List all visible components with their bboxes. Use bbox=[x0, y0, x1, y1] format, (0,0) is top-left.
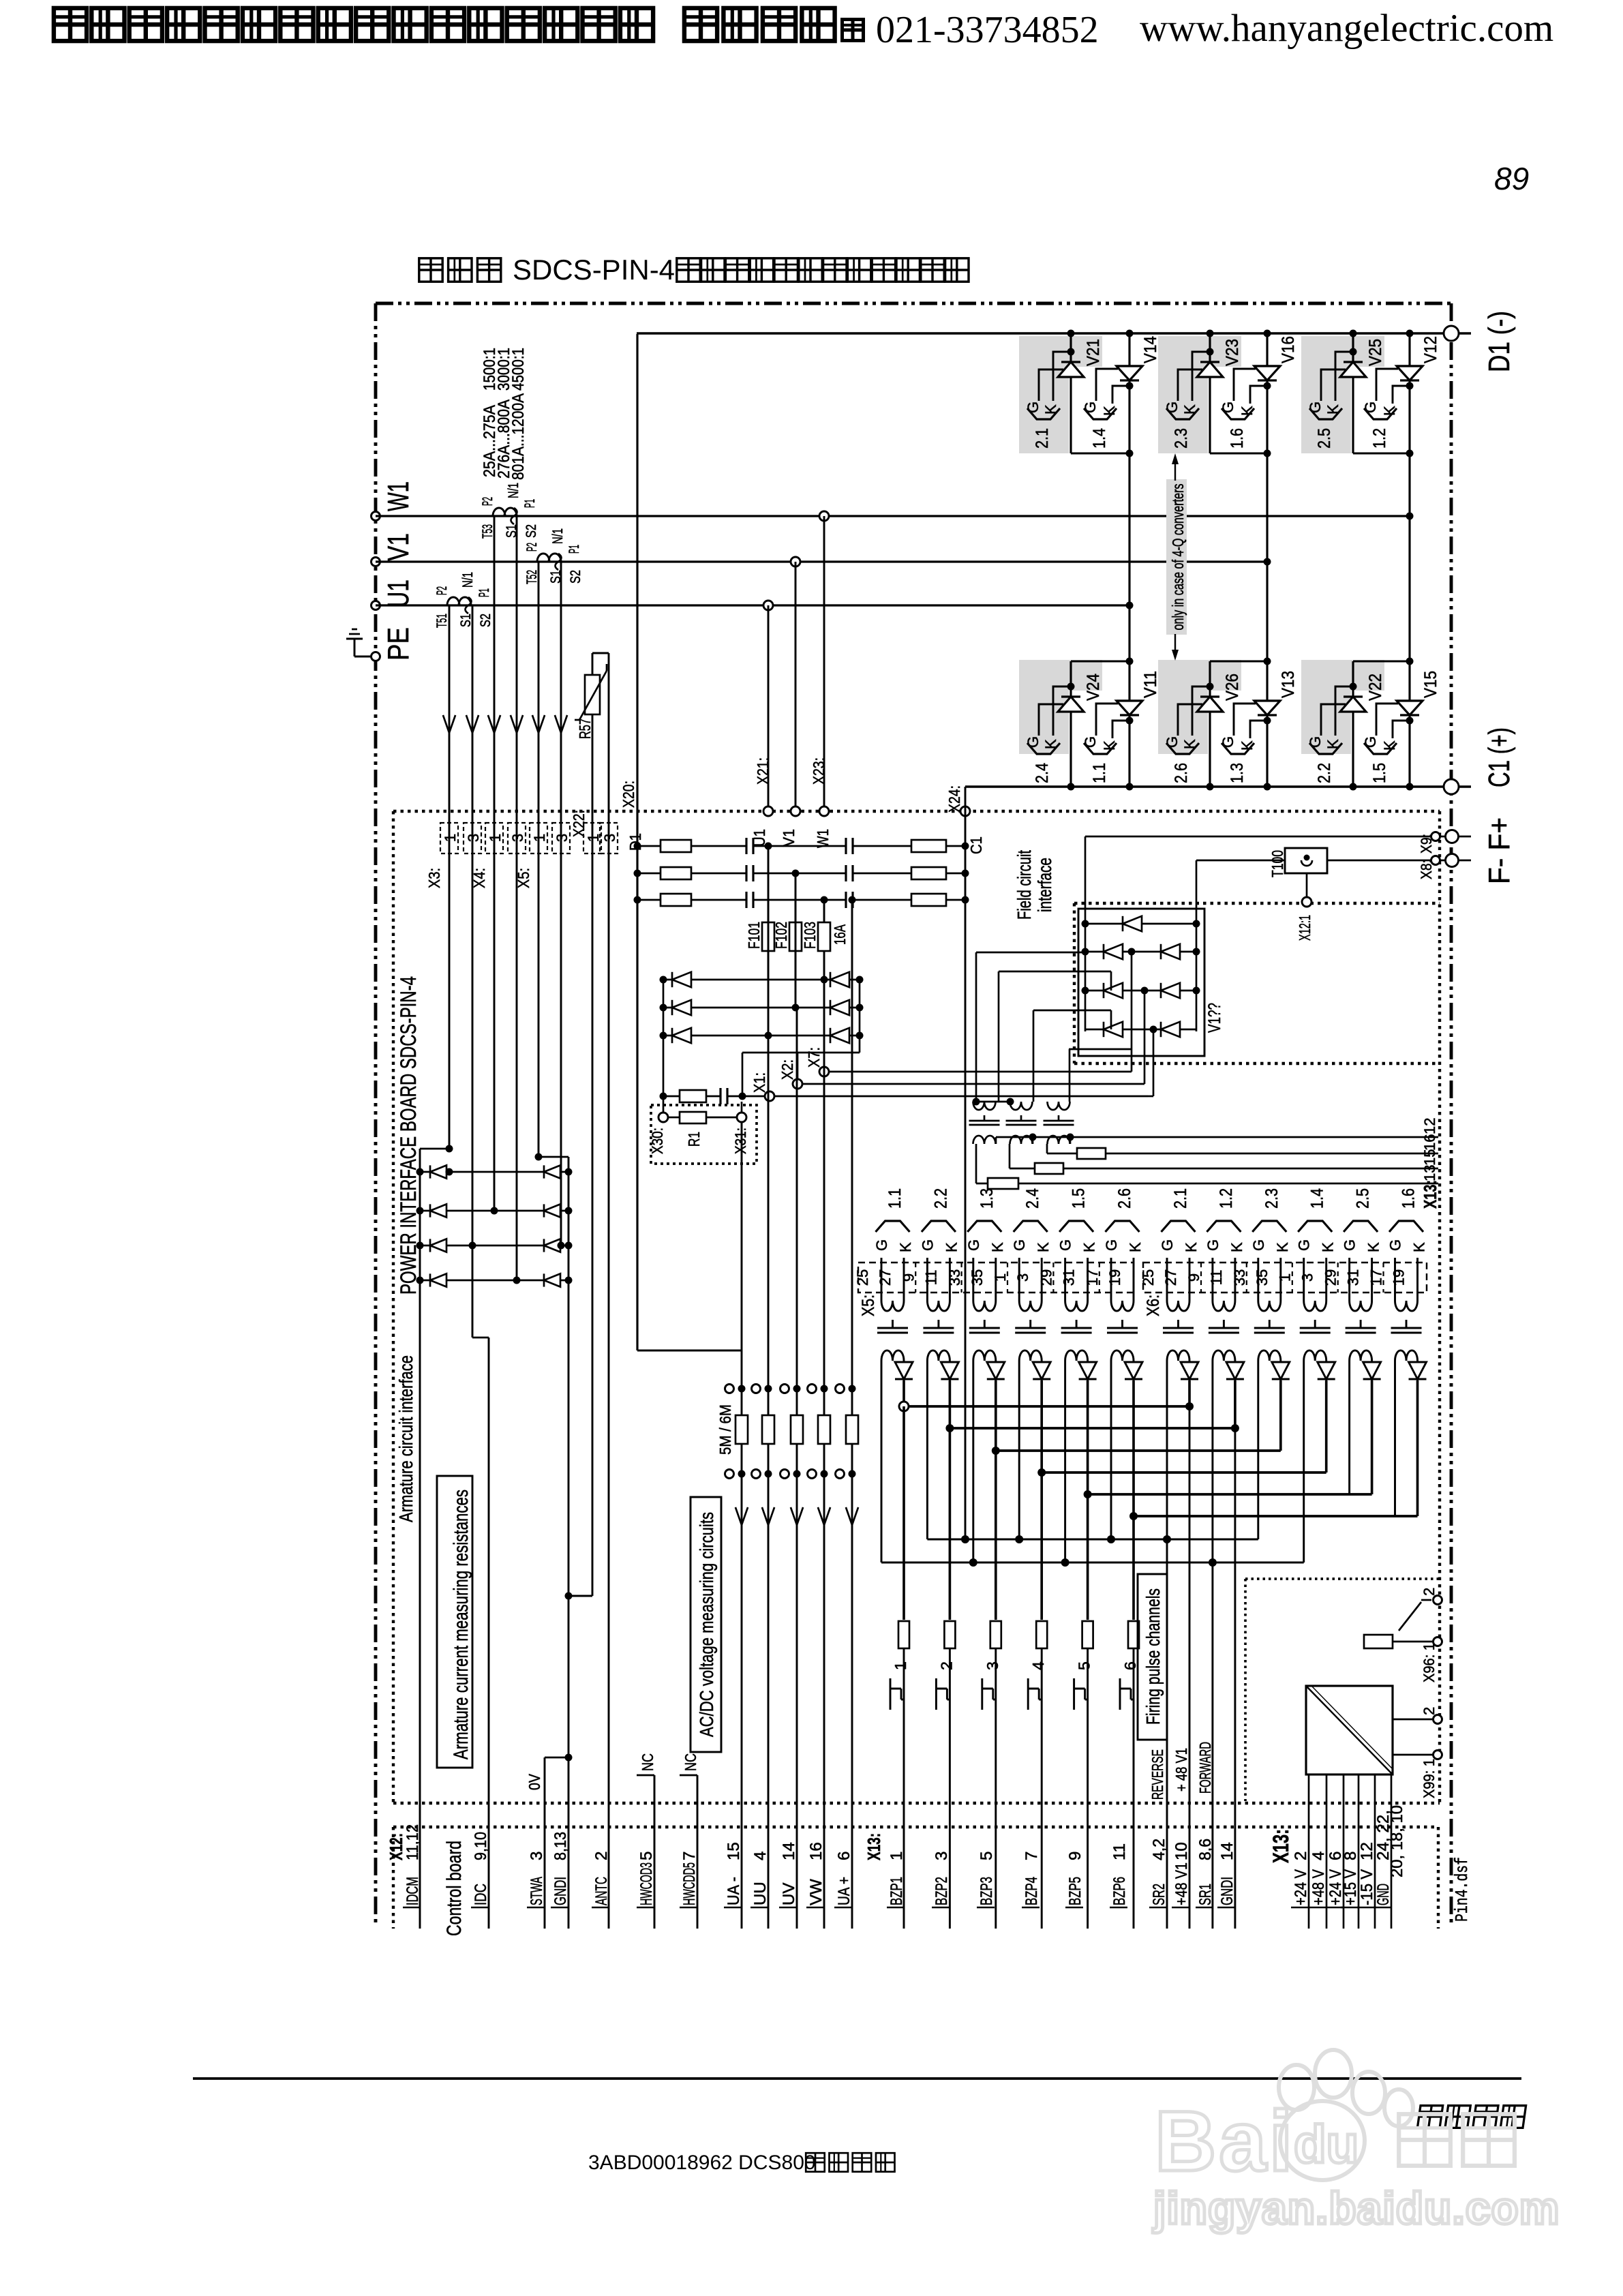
wire V1 drop bbox=[795, 562, 797, 811]
svg-text:5M / 6M: 5M / 6M bbox=[716, 1404, 734, 1455]
svg-text:K: K bbox=[1035, 1242, 1052, 1252]
svg-text:1.2: 1.2 bbox=[1217, 1188, 1236, 1209]
svg-text:V11: V11 bbox=[1141, 671, 1160, 698]
wire X7 to field bridge bbox=[830, 952, 1132, 1072]
shade thyristor module backgrounds bbox=[1019, 336, 1384, 754]
svg-text:15: 15 bbox=[725, 1842, 743, 1860]
svg-text:R57: R57 bbox=[576, 719, 594, 739]
svg-text:only in case of 4-Q converters: only in case of 4-Q converters bbox=[1169, 484, 1187, 631]
svg-text:PE: PE bbox=[382, 627, 415, 661]
svg-text:X99: 1: X99: 1 bbox=[1421, 1759, 1438, 1798]
svg-text:V22: V22 bbox=[1366, 674, 1385, 701]
label X13: first bbox=[864, 1833, 884, 1860]
svg-text:15: 15 bbox=[1421, 1149, 1438, 1166]
svg-text:1.3: 1.3 bbox=[977, 1188, 997, 1209]
svg-text:du: du bbox=[1294, 2114, 1359, 2174]
svg-text:4: 4 bbox=[1309, 1852, 1328, 1860]
svg-text:2: 2 bbox=[1421, 1588, 1438, 1596]
svg-text:X96: 1: X96: 1 bbox=[1421, 1643, 1438, 1682]
wire X1 to field bridge bbox=[775, 1029, 1153, 1096]
svg-text:BZP1: BZP1 bbox=[888, 1877, 906, 1905]
frame dash-dot border left bbox=[374, 303, 378, 1926]
connector X12/X13 dotted box bbox=[393, 1827, 1438, 1929]
svg-text:G: G bbox=[1341, 1239, 1359, 1251]
header phone 021-33734852 bbox=[876, 9, 1099, 51]
svg-text:VW: VW bbox=[807, 1879, 825, 1905]
terminals measuring jumpers bbox=[725, 1385, 856, 1479]
pulse transformer channel 2.3 (X6) bbox=[1250, 1188, 1291, 1380]
svg-text:11: 11 bbox=[922, 1270, 939, 1286]
svg-text:16: 16 bbox=[1421, 1134, 1438, 1151]
wire field primary bus bbox=[973, 1098, 1014, 1106]
label Control board bbox=[443, 1841, 466, 1936]
svg-text:V26: V26 bbox=[1223, 674, 1242, 701]
svg-text:1: 1 bbox=[888, 1852, 906, 1860]
title Chinese: 配置了 bbox=[419, 258, 501, 282]
svg-text:F103: F103 bbox=[801, 922, 819, 949]
svg-text:S2: S2 bbox=[568, 570, 583, 584]
resistors 5M/6M divider x5 bbox=[735, 1415, 858, 1444]
label REVERSE bbox=[1149, 1749, 1166, 1800]
svg-text:V1??: V1?? bbox=[1205, 1003, 1224, 1033]
svg-text:P1: P1 bbox=[566, 545, 582, 554]
svg-text:3: 3 bbox=[601, 834, 618, 842]
header Chinese text: 销售热线 bbox=[684, 8, 864, 41]
labels X12/X13 pin names bbox=[403, 1810, 1393, 1907]
wire D1 bus vertical bbox=[636, 334, 638, 1350]
wire amp out 2 bbox=[1393, 1719, 1438, 1721]
svg-text:20, 18, 10: 20, 18, 10 bbox=[1388, 1805, 1406, 1877]
label CT ratings 25A...275A column bbox=[481, 348, 499, 477]
node V1 drop junction bbox=[791, 557, 800, 567]
svg-text:33: 33 bbox=[946, 1269, 963, 1286]
wire field F- output bbox=[1085, 836, 1436, 924]
pulse transformer channel 1.3 (X5) bbox=[965, 1188, 1006, 1380]
connector X3: pins 1,3 bbox=[425, 823, 482, 888]
label F- F+ bbox=[1483, 817, 1516, 884]
board outline POWER INTERFACE BOARD dotted box bbox=[393, 811, 1440, 1803]
wire C1(+) rail bbox=[965, 785, 1471, 787]
svg-text:X5:: X5: bbox=[859, 1295, 878, 1316]
node snubber taps bbox=[765, 843, 828, 904]
svg-text:X5:: X5: bbox=[515, 868, 532, 888]
svg-text:8,6: 8,6 bbox=[1196, 1839, 1215, 1860]
wire field to T100 bbox=[1196, 860, 1285, 924]
svg-text:V14: V14 bbox=[1141, 336, 1160, 363]
svg-text:X12:1: X12:1 bbox=[1296, 915, 1314, 941]
labels T52 bbox=[524, 528, 583, 584]
resistor R1 bbox=[669, 1112, 736, 1147]
terminal U1 circle bbox=[371, 601, 380, 610]
label X12: bbox=[386, 1833, 406, 1860]
svg-text:4,2: 4,2 bbox=[1150, 1839, 1168, 1860]
svg-text:G: G bbox=[1025, 402, 1042, 413]
svg-text:S2: S2 bbox=[478, 614, 494, 627]
svg-text:K: K bbox=[1127, 1242, 1144, 1252]
svg-text:3: 3 bbox=[465, 834, 482, 842]
switch X96 bbox=[1399, 1600, 1431, 1631]
svg-text:Field circuit: Field circuit bbox=[1014, 850, 1035, 920]
svg-text:2.5: 2.5 bbox=[1315, 428, 1334, 449]
svg-text:1.2: 1.2 bbox=[1370, 428, 1389, 449]
svg-text:1.6: 1.6 bbox=[1399, 1188, 1419, 1209]
svg-text:5: 5 bbox=[637, 1852, 656, 1860]
svg-text:SR1: SR1 bbox=[1196, 1884, 1215, 1905]
svg-text:14: 14 bbox=[780, 1842, 798, 1860]
svg-text:X3:: X3: bbox=[425, 868, 443, 888]
svg-text:G: G bbox=[1082, 736, 1099, 748]
page number 89 bbox=[1494, 161, 1529, 196]
svg-text:G: G bbox=[1164, 402, 1181, 413]
label Pin4.dsf bbox=[1452, 1857, 1472, 1922]
transformer T52 (CT on V1) bbox=[537, 554, 562, 570]
svg-text:1.4: 1.4 bbox=[1308, 1188, 1327, 1209]
svg-text:35: 35 bbox=[1254, 1269, 1271, 1286]
label V1?? bbox=[1205, 1003, 1224, 1033]
wire V1 rail bbox=[376, 560, 1267, 562]
wire bridge bottom link bbox=[742, 1053, 860, 1096]
svg-text:GNDI: GNDI bbox=[1218, 1877, 1237, 1905]
svg-text:14: 14 bbox=[1218, 1842, 1237, 1860]
svg-text:1.1: 1.1 bbox=[1090, 763, 1109, 783]
svg-text:2.5: 2.5 bbox=[1354, 1188, 1373, 1209]
svg-text:jingyan.baidu.com: jingyan.baidu.com bbox=[1152, 2183, 1560, 2233]
svg-text:G: G bbox=[1025, 736, 1042, 748]
svg-text:G: G bbox=[1362, 402, 1379, 413]
svg-text:V12: V12 bbox=[1421, 336, 1440, 363]
svg-text:F101: F101 bbox=[745, 922, 763, 949]
svg-text:33: 33 bbox=[1231, 1269, 1248, 1286]
svg-text:X9:: X9: bbox=[1418, 834, 1435, 854]
svg-text:X23:: X23: bbox=[810, 757, 828, 785]
label Armature circuit interface bbox=[395, 1355, 416, 1522]
node C1 drop joins bus bbox=[961, 1535, 969, 1543]
svg-text:X20:: X20: bbox=[620, 781, 637, 808]
wire U1 drop to X21 bbox=[768, 605, 770, 811]
fuse F101 bbox=[745, 900, 774, 980]
svg-text:7: 7 bbox=[680, 1852, 699, 1860]
terminal V1 circle bbox=[371, 558, 380, 567]
svg-text:31: 31 bbox=[1061, 1269, 1078, 1286]
svg-text:G: G bbox=[1164, 736, 1181, 748]
svg-text:ANTC: ANTC bbox=[592, 1877, 611, 1905]
svg-text:T100: T100 bbox=[1269, 850, 1286, 877]
pulse transformer channel 1.4 (X6) bbox=[1296, 1188, 1337, 1380]
header url www.hanyangelectric.com bbox=[1140, 7, 1553, 50]
svg-text:2.4: 2.4 bbox=[1033, 763, 1052, 783]
wire field riser 4 bbox=[1069, 1049, 1132, 1102]
svg-text:Firing pulse channels: Firing pulse channels bbox=[1142, 1588, 1164, 1725]
wire D1 to UA- bend bbox=[637, 1350, 742, 1352]
svg-text:19: 19 bbox=[1106, 1269, 1123, 1286]
svg-text:W1: W1 bbox=[382, 481, 415, 511]
varistor R57 bbox=[565, 653, 609, 1600]
svg-text:F- F+: F- F+ bbox=[1483, 817, 1516, 884]
svg-text:11,12: 11,12 bbox=[404, 1824, 422, 1860]
svg-text:10: 10 bbox=[1172, 1842, 1191, 1860]
label C1 (+) bbox=[1483, 727, 1516, 787]
pulse transformer channel 1.2 (X6) bbox=[1204, 1188, 1245, 1380]
wire CT secondary lines x6 bbox=[449, 516, 561, 1338]
svg-text:X13:: X13: bbox=[864, 1833, 884, 1860]
svg-text:6: 6 bbox=[835, 1852, 853, 1860]
svg-text:1.5: 1.5 bbox=[1370, 763, 1389, 783]
svg-text:D1 (-): D1 (-) bbox=[1483, 311, 1516, 372]
svg-text:2.1: 2.1 bbox=[1033, 428, 1052, 449]
svg-text:K: K bbox=[1411, 1242, 1428, 1252]
wire UA+ measuring line bbox=[849, 896, 856, 1929]
svg-text:X24:: X24: bbox=[945, 785, 963, 813]
wire HWCOD3 line bbox=[654, 1775, 656, 1929]
svg-text:19: 19 bbox=[1391, 1269, 1408, 1286]
connector X5 dashed box with pins bbox=[854, 1263, 1134, 1316]
svg-text:K: K bbox=[1228, 1242, 1245, 1252]
firing pulse generator symbols 1-6 bbox=[890, 1661, 1139, 1710]
transformer field gate drive at x=1553 bbox=[1044, 1102, 1074, 1144]
svg-text:2: 2 bbox=[937, 1661, 955, 1670]
thyristor V24 bbox=[1025, 674, 1103, 783]
footer Chinese italic 技术数据 bbox=[1417, 2106, 1526, 2128]
wire IDCM bus bbox=[420, 1145, 453, 1929]
arrows measuring lines bbox=[735, 1507, 858, 1525]
svg-text:29: 29 bbox=[1322, 1269, 1339, 1286]
svg-text:G: G bbox=[1082, 402, 1099, 413]
svg-text:P2: P2 bbox=[480, 497, 496, 506]
svg-text:4: 4 bbox=[1029, 1661, 1047, 1670]
label V1 bbox=[382, 533, 415, 561]
thyristor V25 bbox=[1307, 339, 1385, 449]
title latin SDCS-PIN-4 bbox=[513, 254, 675, 286]
svg-text:9: 9 bbox=[1185, 1273, 1202, 1282]
footer doc number bbox=[588, 2151, 816, 2174]
svg-text:16A: 16A bbox=[831, 924, 849, 945]
label Field circuit interface bbox=[1014, 850, 1055, 920]
svg-text:N/1: N/1 bbox=[460, 572, 476, 588]
svg-text:BZP5: BZP5 bbox=[1066, 1877, 1084, 1905]
svg-text:801A...1200A: 801A...1200A bbox=[509, 393, 528, 480]
svg-text:UV: UV bbox=[780, 1883, 798, 1905]
connector X30/X31 dotted box bbox=[651, 1105, 757, 1164]
svg-text:HWCDD5: HWCDD5 bbox=[680, 1862, 699, 1905]
svg-text:BZP6: BZP6 bbox=[1110, 1877, 1129, 1905]
label NC HWCDD5 bbox=[680, 1753, 699, 1775]
svg-text:16: 16 bbox=[807, 1842, 825, 1860]
svg-text:REVERSE: REVERSE bbox=[1149, 1749, 1166, 1800]
svg-text:G: G bbox=[1362, 736, 1379, 748]
wires thyristor bridge columns and links bbox=[1067, 330, 1414, 791]
wire amp out 1 bbox=[1393, 1754, 1438, 1756]
svg-text:G: G bbox=[1159, 1239, 1176, 1251]
svg-text:X13:: X13: bbox=[1420, 1180, 1440, 1209]
svg-text:G: G bbox=[1296, 1239, 1313, 1251]
svg-text:1: 1 bbox=[487, 834, 504, 842]
footer rule bbox=[193, 2077, 1521, 2080]
wire GNDI bus bbox=[535, 1153, 569, 1929]
note only in case of 4-Q converters bbox=[1166, 453, 1187, 661]
svg-text:www.hanyangelectric.com: www.hanyangelectric.com bbox=[1140, 7, 1553, 50]
svg-text:27: 27 bbox=[877, 1269, 894, 1286]
transformer T100 bbox=[1269, 848, 1327, 877]
svg-text:N/1: N/1 bbox=[506, 483, 521, 498]
svg-text:9,10: 9,10 bbox=[472, 1832, 490, 1860]
svg-text:IDCM: IDCM bbox=[404, 1877, 422, 1905]
svg-text:C1 (+): C1 (+) bbox=[1483, 727, 1516, 787]
wire SR2 REVERSE line bbox=[1166, 1539, 1168, 1929]
wires firing pulse buses 1-6 bbox=[899, 1380, 1418, 1520]
label 16A bbox=[831, 924, 849, 945]
svg-text:SDCS-PIN-4: SDCS-PIN-4 bbox=[513, 254, 675, 286]
transformer field gate drive at x=1498 bbox=[1006, 1102, 1037, 1144]
RC network R-C row bbox=[660, 1088, 765, 1104]
connector X4: pins 1,3 bbox=[470, 823, 526, 888]
svg-text:+48 V: +48 V bbox=[1309, 1869, 1328, 1905]
wire gate common bus reverse bbox=[927, 1380, 1258, 1543]
svg-text:UU: UU bbox=[751, 1882, 770, 1905]
svg-text:P2: P2 bbox=[524, 543, 540, 552]
svg-text:1: 1 bbox=[531, 834, 548, 842]
svg-text:3: 3 bbox=[528, 1852, 546, 1860]
connector X23 circle bbox=[810, 757, 832, 848]
svg-text:G: G bbox=[1219, 736, 1237, 748]
pulse transformer channel 2.4 (X5) bbox=[1011, 1188, 1052, 1380]
svg-text:G: G bbox=[1103, 1239, 1120, 1251]
terminal C1 circle bbox=[1444, 779, 1459, 794]
wire C1 drop X24 bbox=[965, 787, 967, 1539]
diode bridge field V1?? (7 diodes) bbox=[1078, 909, 1204, 1056]
svg-text:G: G bbox=[1307, 736, 1324, 748]
thyristor V23 bbox=[1164, 339, 1242, 449]
wire field riser 1 bbox=[976, 952, 1085, 1102]
svg-text:V25: V25 bbox=[1366, 339, 1385, 366]
svg-text:17: 17 bbox=[1368, 1269, 1385, 1286]
thyristor V13 bbox=[1219, 671, 1298, 783]
svg-text:1: 1 bbox=[1277, 1273, 1294, 1282]
svg-text:K: K bbox=[1320, 1242, 1337, 1252]
svg-text:2.3: 2.3 bbox=[1172, 428, 1191, 449]
label NC HWCOD3 bbox=[637, 1753, 656, 1775]
svg-text:4500:1: 4500:1 bbox=[509, 348, 528, 391]
svg-text:FORWARD: FORWARD bbox=[1196, 1742, 1214, 1794]
svg-text:G: G bbox=[873, 1239, 890, 1251]
svg-text:X8:: X8: bbox=[1418, 860, 1435, 879]
node U1 drop junction bbox=[763, 601, 773, 610]
svg-text:NC: NC bbox=[682, 1753, 699, 1771]
svg-text:7: 7 bbox=[1022, 1852, 1041, 1860]
connector X1 circle bbox=[750, 1072, 774, 1101]
svg-text:K: K bbox=[943, 1242, 960, 1252]
svg-text:1.1: 1.1 bbox=[885, 1188, 905, 1209]
connector X7 circle bbox=[805, 1047, 829, 1076]
connector X30 circle bbox=[649, 1096, 668, 1154]
label +48 V1 bbox=[1172, 1748, 1190, 1792]
wire UU measuring line bbox=[768, 1036, 770, 1929]
label U1 bbox=[382, 579, 415, 607]
svg-text:NC: NC bbox=[639, 1753, 656, 1771]
op-amp isolation amplifier bbox=[1306, 1686, 1393, 1774]
box AC/DC voltage measuring circuits bbox=[691, 1497, 721, 1752]
svg-text:interface: interface bbox=[1034, 858, 1055, 912]
svg-text:UA -: UA - bbox=[725, 1877, 743, 1905]
connector X9 F- terminal bbox=[1418, 830, 1471, 854]
svg-text:12: 12 bbox=[1421, 1118, 1438, 1134]
wire W1 rail bbox=[376, 515, 1410, 517]
svg-text:HWCOD3: HWCOD3 bbox=[637, 1862, 656, 1905]
thyristor V26 bbox=[1164, 674, 1242, 783]
svg-text:GNDI: GNDI bbox=[551, 1877, 570, 1905]
pulse transformer channel 2.6 (X5) bbox=[1103, 1188, 1144, 1380]
svg-text:Control board: Control board bbox=[443, 1841, 466, 1936]
svg-text:11: 11 bbox=[1110, 1843, 1129, 1860]
svg-text:T51: T51 bbox=[434, 614, 450, 628]
connector X31 circle bbox=[732, 1102, 749, 1154]
connector X24 circle bbox=[945, 785, 985, 854]
svg-text:V15: V15 bbox=[1421, 671, 1440, 698]
svg-text:+24 V: +24 V bbox=[1292, 1869, 1310, 1905]
svg-text:1.5: 1.5 bbox=[1070, 1188, 1089, 1209]
svg-text:BZP2: BZP2 bbox=[932, 1877, 951, 1905]
svg-text:4: 4 bbox=[751, 1852, 770, 1860]
svg-text:35: 35 bbox=[969, 1269, 986, 1286]
wire GNDI2 line bbox=[1234, 1428, 1236, 1929]
svg-text:021-33734852: 021-33734852 bbox=[876, 9, 1099, 51]
svg-text:8,13: 8,13 bbox=[551, 1832, 570, 1860]
connector X12:1 bbox=[1296, 873, 1314, 941]
svg-text:+15 V: +15 V bbox=[1341, 1869, 1360, 1905]
thyristor V15 bbox=[1362, 671, 1440, 783]
snubber RC network row 3 bbox=[634, 892, 969, 908]
connector X20 entry bbox=[620, 781, 644, 851]
svg-text:K: K bbox=[1274, 1242, 1291, 1252]
label GND extra pins bbox=[1388, 1805, 1406, 1877]
svg-text:V24: V24 bbox=[1084, 674, 1103, 701]
wire UA- measuring line bbox=[741, 1123, 743, 1929]
wire 0V stub bbox=[526, 1754, 573, 1791]
node W1 drop junction bbox=[819, 511, 829, 521]
svg-text:5: 5 bbox=[977, 1852, 996, 1860]
svg-text:17: 17 bbox=[1084, 1269, 1101, 1286]
svg-text:G: G bbox=[1011, 1239, 1028, 1251]
wire UV measuring line bbox=[796, 1008, 798, 1929]
pulse transformer channel 1.6 (X6) bbox=[1387, 1188, 1428, 1380]
arrows on CT secondaries bbox=[443, 715, 567, 733]
wire field riser 3 bbox=[1033, 1010, 1111, 1102]
svg-text:X6:: X6: bbox=[1144, 1295, 1163, 1316]
svg-text:3ABD00018962 DCS800: 3ABD00018962 DCS800 bbox=[588, 2151, 816, 2174]
svg-text:2: 2 bbox=[1421, 1707, 1438, 1715]
svg-text:X30:: X30: bbox=[649, 1128, 666, 1154]
label W1 bbox=[382, 481, 415, 511]
resistor X96 branch bbox=[1364, 1635, 1438, 1648]
svg-text:G: G bbox=[1057, 1239, 1074, 1251]
wire +48V1 line bbox=[1189, 1406, 1191, 1929]
wire gate common bus forward bbox=[881, 1380, 1304, 1567]
box Armature current measuring resistances bbox=[437, 1476, 472, 1768]
transformer T51 (CT on U1) bbox=[447, 597, 472, 614]
node V1 entry circle bbox=[780, 806, 800, 847]
wire W1 drop to X23 bbox=[823, 516, 825, 811]
svg-text:K: K bbox=[1365, 1242, 1382, 1252]
thyristor V21 bbox=[1025, 339, 1103, 449]
svg-text:K: K bbox=[989, 1242, 1006, 1252]
transformer field gate drive at x=1444 bbox=[969, 1102, 1000, 1144]
svg-text:+48 V1: +48 V1 bbox=[1172, 1862, 1191, 1905]
svg-text:1: 1 bbox=[442, 834, 459, 842]
connector X96 circles bbox=[1421, 1588, 1442, 1682]
svg-text:11: 11 bbox=[1208, 1270, 1225, 1286]
svg-text:25: 25 bbox=[1140, 1269, 1157, 1286]
thyristor V22 bbox=[1307, 674, 1385, 783]
svg-text:8: 8 bbox=[1341, 1852, 1360, 1860]
